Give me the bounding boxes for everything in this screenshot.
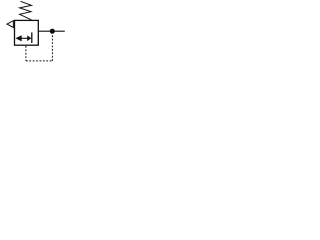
inlet port arrowhead (open triangle) <box>7 21 13 28</box>
flow-path arrow left (filled) <box>15 35 21 41</box>
flow-path arrow right (filled) <box>27 35 31 41</box>
spring (regulator adjustment spring) <box>20 1 32 20</box>
junction node (dot) <box>50 29 55 34</box>
pilot line across bottom (dashed wire) <box>26 60 53 62</box>
pilot line down from valve bottom (dashed wire) <box>25 46 27 61</box>
outlet wire <box>38 30 65 32</box>
valve seat bar <box>31 32 33 43</box>
flow-path wire segment <box>21 37 27 39</box>
valve body U1 (regulator box) <box>15 20 39 45</box>
pilot line up to junction (dashed wire) <box>51 34 53 61</box>
